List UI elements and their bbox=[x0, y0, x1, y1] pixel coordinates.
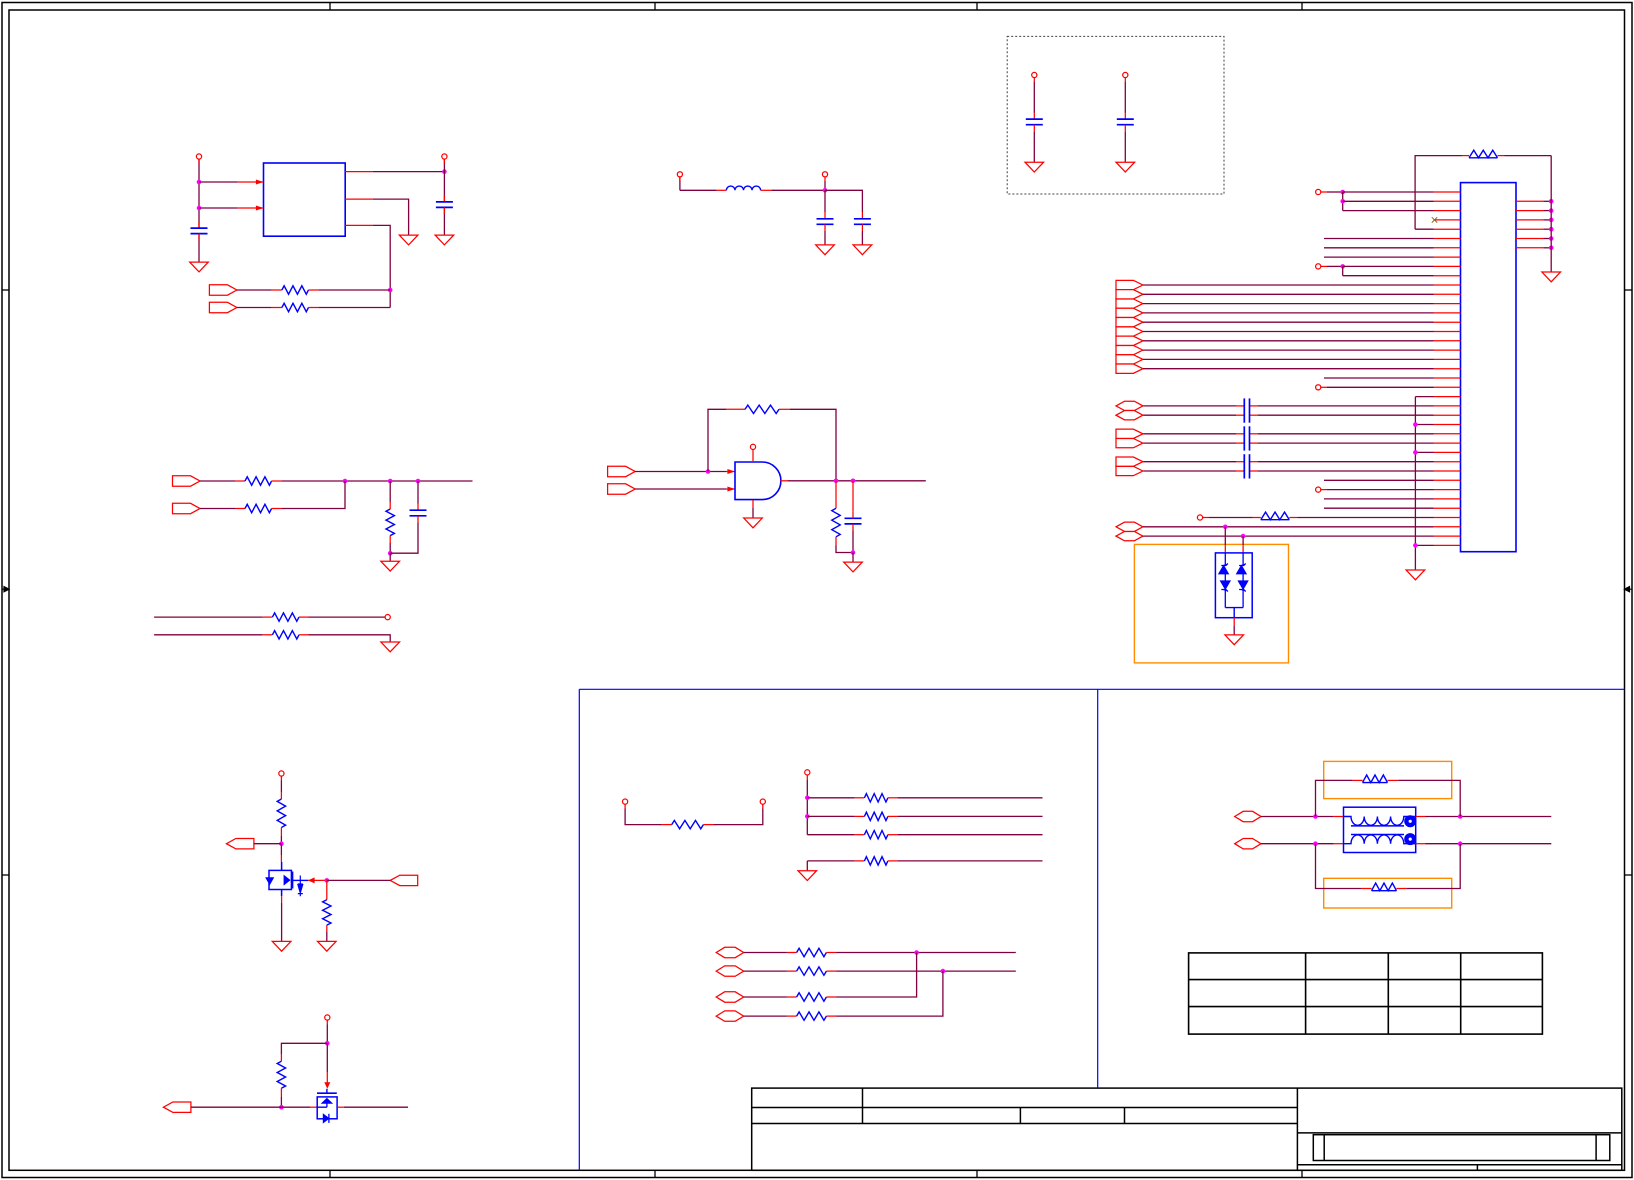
capacitor C6 bbox=[1124, 113, 1126, 120]
port PAIR1A bbox=[1116, 401, 1143, 410]
frame tick right bbox=[1625, 289, 1633, 291]
pin J1 left 20 bbox=[1434, 368, 1461, 370]
wire SER4 bbox=[744, 1015, 787, 1017]
wire FB3 right bbox=[1398, 780, 1460, 816]
port BUS7 bbox=[1116, 336, 1143, 345]
wire R13 left bbox=[624, 804, 626, 808]
pin U1 GND bbox=[345, 198, 373, 200]
port MDI- bbox=[1235, 839, 1261, 849]
ground R11 bbox=[318, 941, 337, 951]
wire bus row 7 bbox=[1143, 340, 1434, 342]
dashed optional box bbox=[1007, 36, 1224, 194]
pin J1 left 36 bbox=[1434, 517, 1461, 519]
connector J1 bbox=[1461, 183, 1517, 552]
wire row 3 bbox=[1343, 210, 1434, 212]
terminal pull group bbox=[805, 770, 810, 775]
pin J1 left 39 bbox=[1434, 544, 1461, 546]
wire R9 to C8 bbox=[836, 546, 853, 553]
pin J1 left 30 bbox=[1434, 461, 1461, 463]
port ESD1 bbox=[1116, 522, 1143, 531]
wire SER3 bbox=[744, 996, 787, 998]
wire bus row 5 bbox=[1143, 321, 1434, 323]
Q1 gate pin bbox=[293, 879, 309, 881]
stub row 29 bbox=[1415, 451, 1433, 453]
wire U1 input 2 bbox=[199, 207, 237, 209]
wire CTRL to node bbox=[254, 843, 282, 845]
frame tick bottom bbox=[654, 1170, 656, 1177]
title block divider v1 bbox=[862, 1088, 864, 1123]
node junction a bbox=[343, 479, 348, 484]
port PAIR2B bbox=[1116, 438, 1143, 447]
wire bus row 1 bbox=[1143, 284, 1434, 286]
pin J1 left 33 bbox=[1434, 489, 1461, 491]
pin J1 left 32 bbox=[1434, 479, 1461, 481]
wire cap row A left bbox=[1143, 433, 1236, 435]
capacitor C2 bbox=[443, 196, 445, 202]
resistor R4 bbox=[235, 508, 245, 510]
port MDI+ bbox=[1235, 811, 1261, 821]
terminal A bbox=[1316, 189, 1321, 194]
port BUS1 bbox=[1116, 280, 1143, 289]
AND gate U2 bbox=[735, 462, 781, 500]
wire sense+ from left bbox=[154, 616, 263, 618]
frame center arrow left bbox=[2, 587, 9, 592]
frame tick bottom bbox=[976, 1170, 978, 1177]
resistor R16 bbox=[855, 834, 865, 836]
wire pull row 3 bbox=[807, 834, 854, 836]
pin J1 left 24 bbox=[1434, 405, 1461, 407]
title block row line 2 bbox=[752, 1123, 1298, 1125]
pin J1 left 16 bbox=[1434, 331, 1461, 333]
table column line bbox=[1387, 953, 1389, 1034]
port CTRL bbox=[226, 839, 254, 849]
wire bus row 10 bbox=[1143, 368, 1434, 370]
T1 polarity dot bottom bbox=[1404, 833, 1416, 845]
node gate junction bbox=[325, 878, 330, 883]
port BUS9 bbox=[1116, 355, 1143, 364]
wire U1 GND to ground bbox=[373, 199, 409, 235]
resistor R21 bbox=[787, 1015, 797, 1017]
ferrite bead FB1 loop top wire bbox=[1415, 156, 1462, 230]
port IN-A bbox=[608, 466, 636, 476]
port BUS8 bbox=[1116, 345, 1143, 354]
inductor L1 bbox=[717, 189, 727, 191]
wire cap row A right bbox=[1258, 405, 1434, 407]
wire bus row 6 bbox=[1143, 331, 1434, 333]
ground Q1 bbox=[272, 941, 291, 951]
gnd bus vertical right bbox=[1550, 156, 1552, 272]
wire row 8 bbox=[1324, 256, 1434, 258]
red pin segs bbox=[1236, 433, 1244, 435]
wire R16 right bbox=[898, 834, 1043, 836]
pin T1 out- bbox=[1416, 843, 1426, 845]
pin J1 left 10 bbox=[1434, 275, 1461, 277]
terminal VOUT bbox=[442, 154, 447, 159]
terminal R13 left bbox=[623, 799, 628, 804]
wire row 7 bbox=[1324, 247, 1434, 249]
terminal B bbox=[1316, 264, 1321, 269]
wire FB1 to R1 bbox=[237, 289, 272, 291]
pin T1 out+ bbox=[1416, 816, 1426, 818]
Q1 gate bar bbox=[292, 872, 294, 889]
title block right inner divider 1 bbox=[1323, 1135, 1325, 1161]
node A1 bbox=[1340, 190, 1345, 195]
port PAIR1B bbox=[1116, 411, 1143, 420]
title block right h-line bbox=[1297, 1132, 1621, 1134]
node VOUT junction bbox=[442, 169, 447, 174]
wire right pin to gnd bus bbox=[1543, 228, 1551, 230]
pin J1 right 1 bbox=[1516, 200, 1543, 202]
wire R2 to FB node bbox=[319, 307, 391, 309]
red pin segs bbox=[1236, 461, 1244, 463]
wire chain A vertical bbox=[1342, 192, 1344, 211]
wire U2 GND bbox=[752, 508, 754, 518]
wire R14 right bbox=[898, 797, 1043, 799]
resistor R8 feedback bbox=[726, 408, 745, 410]
resistor R17 bbox=[855, 860, 865, 862]
port SER1 bbox=[716, 947, 744, 957]
resistor R14 bbox=[855, 797, 865, 799]
capacitor C7 bbox=[417, 481, 419, 504]
stub row 26 bbox=[1415, 424, 1433, 426]
wire bus row 4 bbox=[1143, 312, 1434, 314]
wire L-in down bbox=[679, 177, 681, 190]
wire right pin to gnd bus bbox=[1543, 210, 1551, 212]
pin J1 left 28 bbox=[1434, 442, 1461, 444]
wire SER4 right bbox=[836, 971, 943, 1016]
frame tick top bbox=[329, 3, 331, 11]
frame tick bottom bbox=[1301, 1170, 1303, 1177]
title block divider v3 bbox=[1124, 1108, 1126, 1124]
wire node to D1 bbox=[281, 1106, 310, 1108]
wire NET1 to R3 bbox=[200, 480, 235, 482]
wire cap row B right bbox=[1258, 442, 1434, 444]
terminal sense bbox=[385, 615, 390, 620]
frame tick right bbox=[1625, 874, 1633, 876]
wire pull row 4 bbox=[807, 860, 854, 862]
pin J1 left 5 bbox=[1434, 228, 1461, 230]
pin U1 OUT1 bbox=[345, 171, 373, 173]
port BUS6 bbox=[1116, 327, 1143, 336]
resistor R6 bbox=[263, 616, 273, 618]
pin D1 left bbox=[310, 1106, 317, 1108]
node junction c bbox=[416, 479, 421, 484]
pin J1 left 3 bbox=[1434, 210, 1461, 212]
terminal D bbox=[1316, 487, 1321, 492]
capacitor C1 bbox=[198, 221, 200, 228]
terminal U2 VCC bbox=[750, 444, 755, 449]
wire MDI+ to T1 bbox=[1261, 816, 1334, 818]
terminal D1 top bbox=[325, 1015, 330, 1020]
pin J1 right 3 bbox=[1516, 219, 1543, 221]
wire right pin to gnd bus bbox=[1543, 247, 1551, 249]
wire L-in to L1 bbox=[680, 189, 717, 191]
capacitor C8 bbox=[852, 481, 854, 512]
pin J1 left 13 bbox=[1434, 303, 1461, 305]
pin J1 left 37 bbox=[1434, 526, 1461, 528]
common-mode choke T1 bbox=[1344, 807, 1416, 852]
port BUS4 bbox=[1116, 308, 1143, 317]
wire ESD row 2 bbox=[1143, 535, 1434, 537]
terminal R13 right bbox=[760, 799, 765, 804]
wire U1 OUT1 to VOUT bbox=[373, 171, 445, 173]
pin J1 left 4 bbox=[1434, 219, 1461, 221]
ferrite bead FB1 bbox=[1462, 155, 1469, 157]
resistor R2 bbox=[272, 307, 282, 309]
port SER2 bbox=[716, 966, 744, 976]
wire cap row A left bbox=[1143, 405, 1236, 407]
resistor R15 bbox=[855, 815, 865, 817]
resistor R11 vertical bbox=[326, 880, 328, 892]
ferrite bead FB3 loop bbox=[1316, 780, 1353, 816]
terminal E bbox=[1197, 515, 1202, 520]
node gnd bus junction bbox=[1549, 236, 1554, 241]
port PAIR2A bbox=[1116, 429, 1143, 438]
T1 polarity dot top bbox=[1404, 815, 1416, 827]
wire bus row 9 bbox=[1143, 358, 1434, 360]
feedback loop wire right bbox=[790, 409, 836, 481]
pin J1 left 17 bbox=[1434, 340, 1461, 342]
frame tick top bbox=[1301, 3, 1303, 11]
node output junction 2 bbox=[851, 479, 856, 484]
port BUS3 bbox=[1116, 299, 1143, 308]
wire SER1 right bbox=[836, 952, 1016, 954]
port GATE-IN bbox=[390, 875, 418, 885]
wire R7 to ground bbox=[309, 635, 391, 642]
frame tick top bbox=[654, 3, 656, 11]
wire bead loop to pin 5 bbox=[1415, 228, 1433, 230]
ground R5 bbox=[389, 553, 391, 561]
wire ESD gnd bbox=[1233, 626, 1235, 635]
left bus vertical bbox=[1414, 397, 1416, 570]
wire node to Q1 drain bbox=[280, 844, 282, 855]
ground C5 bbox=[1025, 162, 1044, 172]
title block right bottom tick bbox=[1476, 1165, 1478, 1171]
wire bead row bbox=[1203, 517, 1209, 519]
wire row 35 bbox=[1324, 507, 1434, 509]
title block row line 1 bbox=[752, 1107, 1298, 1109]
wire ESD1 vertical bbox=[1224, 527, 1226, 546]
pin T1 in+ bbox=[1334, 816, 1344, 818]
table row line bbox=[1189, 979, 1543, 981]
ground C3 bbox=[816, 245, 835, 255]
wire row 6 bbox=[1324, 238, 1434, 240]
port FB1 bbox=[209, 285, 237, 295]
pin D1 right bbox=[337, 1106, 344, 1108]
port BUS2 bbox=[1116, 290, 1143, 299]
pin J1 left 38 bbox=[1434, 535, 1461, 537]
frame tick left bbox=[2, 874, 9, 876]
ferrite bead FB4 loop bbox=[1316, 844, 1362, 889]
ground pull-down bbox=[806, 861, 808, 871]
wire pull row 1 bbox=[807, 797, 854, 799]
capacitor C5 bbox=[1033, 113, 1035, 120]
pin U2 B bbox=[727, 488, 735, 490]
pin J1 left 34 bbox=[1434, 498, 1461, 500]
wire R1 to FB node bbox=[319, 289, 391, 291]
ground C4 bbox=[853, 245, 872, 255]
ground U2 bbox=[744, 518, 763, 528]
ground R7 bbox=[381, 642, 400, 652]
pin J1 left 22 bbox=[1434, 386, 1461, 388]
node R5/C7 junction bbox=[388, 551, 393, 556]
node gnd bus junction bbox=[1549, 208, 1554, 213]
port SER4 bbox=[716, 1011, 744, 1021]
wire L-out to junction bbox=[824, 181, 826, 190]
port PAIR3B bbox=[1116, 466, 1143, 475]
node IN junction 1 bbox=[197, 180, 202, 185]
wire cap row A left bbox=[1143, 461, 1236, 463]
wire R6 to terminal bbox=[309, 616, 386, 618]
regulator U1 bbox=[264, 163, 346, 236]
wire pull row 2 bbox=[807, 815, 854, 817]
wire right pin to gnd bus bbox=[1543, 219, 1551, 221]
node MDI+ left bbox=[1313, 814, 1318, 819]
wire cap row A right bbox=[1258, 461, 1434, 463]
node pull 1 bbox=[805, 796, 810, 801]
pin J1 left 6 bbox=[1434, 238, 1461, 240]
title block right section divider bbox=[1296, 1088, 1298, 1170]
Q1 source wire bbox=[281, 890, 283, 897]
port NET2 bbox=[173, 503, 201, 513]
pin T1 in- bbox=[1334, 843, 1344, 845]
node gnd bus junction bbox=[1549, 227, 1554, 232]
node feedback junction bbox=[706, 469, 711, 474]
wire FB4 right bbox=[1407, 844, 1461, 889]
resistor R7 bbox=[263, 634, 273, 636]
node junction b bbox=[388, 479, 393, 484]
pin U1 FB bbox=[345, 224, 373, 226]
wire row 22 bbox=[1321, 386, 1327, 388]
resistor R3 bbox=[235, 480, 245, 482]
wire SER2 bbox=[744, 970, 787, 972]
title block outline bbox=[752, 1088, 1622, 1170]
wire U1 input 1 bbox=[199, 181, 237, 183]
wire port to node bbox=[191, 1106, 282, 1108]
pin U1 IN1 bbox=[237, 181, 264, 183]
title block right bottom line bbox=[1297, 1164, 1621, 1166]
node B1 bbox=[1340, 264, 1345, 269]
node out- right bbox=[1458, 841, 1463, 846]
wire output net bbox=[787, 480, 926, 482]
pin J1 right 4 bbox=[1516, 228, 1543, 230]
table column line bbox=[1305, 953, 1307, 1034]
red pin segs bbox=[1236, 405, 1244, 407]
port BUS10 bbox=[1116, 364, 1143, 373]
pin J1 left 26 bbox=[1434, 424, 1461, 426]
terminal L-out bbox=[822, 172, 827, 177]
pin U2 A bbox=[727, 471, 735, 473]
node gnd bus junction bbox=[1549, 246, 1554, 251]
pin J1 left 18 bbox=[1434, 349, 1461, 351]
wire T1 out- bbox=[1426, 843, 1552, 845]
node gate-drive junction bbox=[279, 841, 284, 846]
node MDI- left bbox=[1313, 841, 1318, 846]
wire R3 to bus bbox=[282, 480, 473, 482]
pin J1 left 27 bbox=[1434, 433, 1461, 435]
shield box FB4 bbox=[1324, 878, 1452, 908]
transistor Q1 PMOS bbox=[280, 855, 282, 862]
pin J1 left 9 bbox=[1434, 265, 1461, 267]
pin stub below VIN terminal bbox=[198, 159, 200, 163]
ground C6 bbox=[1116, 162, 1135, 172]
pin J1 left 21 bbox=[1434, 377, 1461, 379]
terminal C bbox=[1316, 385, 1321, 390]
node FB junction bbox=[388, 288, 393, 293]
wire FB net bbox=[373, 225, 390, 307]
port NET1 bbox=[173, 476, 201, 486]
wire VIN vertical bbox=[198, 159, 200, 228]
port IN-B bbox=[608, 484, 636, 494]
capacitor C3 bbox=[824, 190, 826, 212]
node gnd bus junction bbox=[1549, 218, 1554, 223]
wire FB2 to pin bbox=[1298, 517, 1434, 519]
capacitor C4 bbox=[861, 212, 863, 219]
resistor R12 vertical bbox=[280, 1054, 282, 1061]
wire ESD2 vertical bbox=[1242, 536, 1244, 545]
node R12 junction bbox=[279, 1105, 284, 1110]
wire NET2 to R4 bbox=[200, 508, 235, 510]
wire terminal A bbox=[1321, 191, 1327, 193]
wire IN-A to gate bbox=[635, 471, 727, 473]
wire junction to R12 bbox=[281, 1043, 327, 1054]
wire D1 vertical bbox=[326, 1020, 328, 1024]
ground C2 bbox=[435, 235, 454, 245]
node IN junction 2 bbox=[197, 206, 202, 211]
wire R17 right bbox=[898, 860, 1043, 862]
node ESD1 bbox=[1223, 525, 1228, 530]
wire SER3 right bbox=[836, 953, 917, 998]
wire row 34 bbox=[1324, 498, 1434, 500]
port PAIR3A bbox=[1116, 457, 1143, 466]
frame center arrow right bbox=[1625, 587, 1633, 592]
pin J1 right 6 bbox=[1516, 247, 1543, 249]
shield box FB3 bbox=[1324, 761, 1452, 798]
terminal Q1 top bbox=[279, 771, 284, 776]
wire to R10 bbox=[280, 776, 282, 780]
resistor R13 bbox=[662, 824, 672, 826]
pin J1 right 2 bbox=[1516, 210, 1543, 212]
title block divider v2 bbox=[1019, 1108, 1021, 1124]
port BUS5 bbox=[1116, 318, 1143, 327]
ground left bus bbox=[1406, 570, 1425, 580]
resistor R9 vertical bbox=[835, 481, 837, 509]
wire row 1 bbox=[1343, 191, 1434, 193]
ground ESD bbox=[1225, 635, 1244, 645]
table column line bbox=[1460, 953, 1462, 1034]
capacitor pair plates bbox=[1243, 398, 1245, 422]
pin ESD gnd bbox=[1233, 618, 1235, 626]
resistor R5 vertical bbox=[389, 481, 391, 502]
frame tick left bbox=[2, 289, 9, 291]
wire R4 up to bus bbox=[282, 481, 345, 509]
node pull 2 bbox=[805, 814, 810, 819]
pin U2 VCC bbox=[752, 450, 754, 463]
wire bus row 8 bbox=[1143, 349, 1434, 351]
resistor R20 bbox=[787, 996, 797, 998]
wire row 10 bbox=[1343, 275, 1434, 277]
wire cap row B left bbox=[1143, 470, 1236, 472]
port SER3 bbox=[716, 992, 744, 1002]
frame tick top bbox=[976, 3, 978, 11]
Q1 body diode bbox=[298, 876, 303, 897]
wire R15 right bbox=[898, 815, 1043, 817]
wire IN-B to gate bbox=[635, 488, 727, 490]
node output junction 1 bbox=[834, 479, 839, 484]
wire right pin to gnd bus bbox=[1543, 238, 1551, 240]
pin J1 left 12 bbox=[1434, 293, 1461, 295]
ground U1 bbox=[399, 235, 418, 245]
